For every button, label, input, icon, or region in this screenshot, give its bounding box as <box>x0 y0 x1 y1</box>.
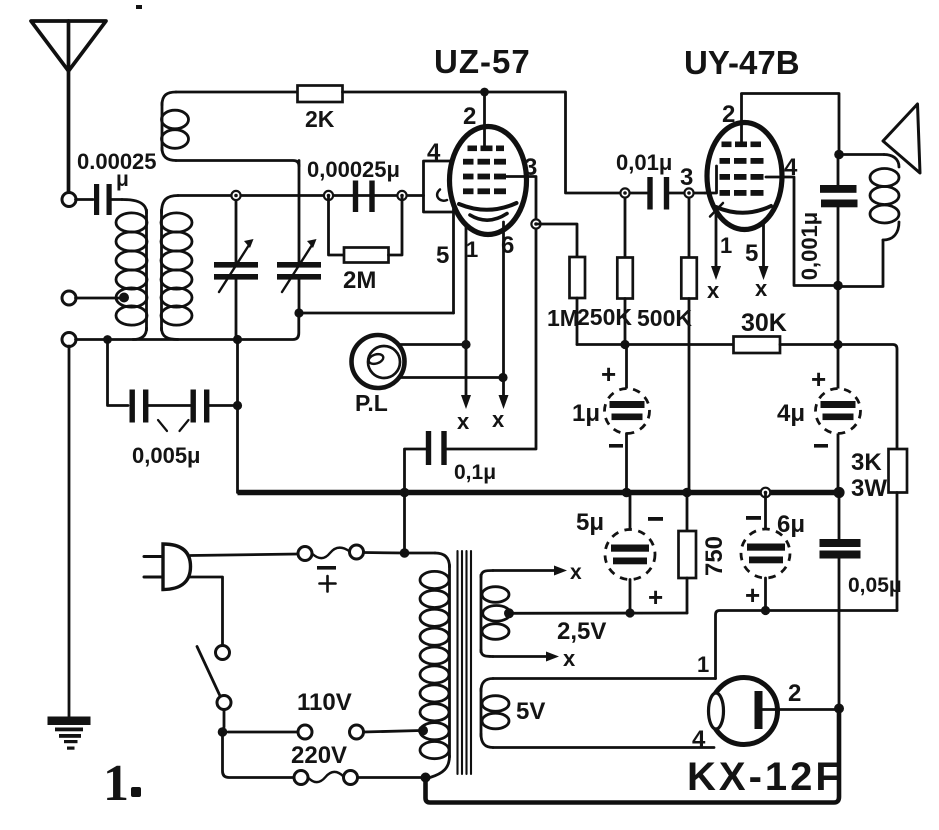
svg-text:3K: 3K <box>851 449 882 476</box>
svg-text:1μ: 1μ <box>572 400 600 427</box>
node bus 6u ring <box>761 488 771 498</box>
speaker coil <box>838 155 899 287</box>
node grid rail 2M right <box>397 191 406 200</box>
capacitor C1 0.00025u <box>76 149 157 215</box>
wire 220V branch <box>223 732 295 778</box>
capacitor C5 0.01u <box>616 150 705 210</box>
node bus 1u-5u <box>622 488 632 498</box>
svg-text:0,1μ: 0,1μ <box>454 461 496 484</box>
coil L3 tickler <box>162 92 189 161</box>
svg-text:UZ-57: UZ-57 <box>434 43 531 80</box>
capacitor C8 0.1u <box>405 431 497 493</box>
node 0.01u right ring <box>684 188 693 197</box>
wire bottom rail y339 <box>76 316 299 340</box>
wire tickler top to 2K <box>176 91 298 94</box>
node 0.005u junction <box>233 401 242 410</box>
wire lamp bottom lead <box>401 376 503 379</box>
resistor R4 250K <box>577 193 633 345</box>
wire grid rail y196 <box>178 194 424 197</box>
svg-text:2: 2 <box>722 101 735 128</box>
switch S1 <box>197 646 231 733</box>
svg-text:+: + <box>745 580 760 610</box>
wire V1 pin6 heater <box>492 222 509 432</box>
wire V2 pin2 top <box>742 94 840 155</box>
svg-text:3W: 3W <box>851 475 887 502</box>
node bus 0.1u riser <box>400 488 410 498</box>
wire 2.5V tap to 750 <box>509 612 687 615</box>
wire 30K to right riser <box>780 345 897 450</box>
ground terminal <box>62 333 76 347</box>
node lamp-pin1 <box>461 340 470 349</box>
svg-text:+: + <box>601 359 616 389</box>
wire V1 pin1 heater <box>457 226 471 434</box>
svg-text:μ: μ <box>116 168 129 191</box>
node grid rail varcap1 <box>231 191 240 200</box>
node plate-speaker bottom <box>833 281 843 291</box>
svg-text:+: + <box>811 364 826 394</box>
winding 2.5V <box>481 571 510 657</box>
wire V3 plate to node <box>761 708 840 711</box>
wire V2 pin5 heater arrow <box>755 222 769 301</box>
wire 2.5V bottom arrow <box>493 646 576 671</box>
svg-text:250K: 250K <box>577 304 632 330</box>
resistor R1 2K <box>298 86 343 103</box>
node UZ pin2 top <box>480 88 489 97</box>
svg-text:2K: 2K <box>305 106 335 132</box>
resistor R5 500K <box>637 193 697 493</box>
wire 2K to corner and down to 0.01u node <box>343 92 648 193</box>
svg-text:3: 3 <box>680 164 693 191</box>
node 5u bottom <box>625 608 634 617</box>
capacitor C11 5u electrolytic <box>576 493 663 614</box>
bus ground rail <box>238 490 840 496</box>
wire tickler bottom <box>176 161 299 167</box>
fuse F1 <box>298 545 364 592</box>
svg-text:4: 4 <box>427 139 441 166</box>
node plate junction ring <box>531 219 540 228</box>
svg-text:2,5V: 2,5V <box>557 618 606 645</box>
antenna terminal middle <box>62 291 76 305</box>
wire 110V to tap <box>364 731 422 733</box>
svg-text:x: x <box>707 278 720 303</box>
svg-text:4μ: 4μ <box>777 400 805 427</box>
svg-text:5: 5 <box>745 240 758 267</box>
tube V1 UZ-57 envelope <box>450 127 527 235</box>
svg-text:0,01μ: 0,01μ <box>616 150 672 175</box>
variable capacitor C3 <box>277 161 321 314</box>
resistor R3 1M <box>547 257 585 345</box>
wire fuse to transformer <box>364 551 436 554</box>
transformer core <box>458 551 472 774</box>
svg-text:1: 1 <box>697 652 709 677</box>
svg-text:x: x <box>570 561 582 584</box>
node 30K right junction <box>833 340 842 349</box>
wire lamp top lead <box>400 343 466 346</box>
svg-text:x: x <box>755 276 768 301</box>
tube V2 UY-47B envelope <box>707 123 782 230</box>
capacitor C9 1u electrolytic <box>572 345 650 493</box>
transformer primary coil <box>420 553 450 778</box>
wire 2.5V top arrow <box>493 561 582 584</box>
terminal 110V right <box>350 725 364 739</box>
node switch junction <box>218 727 228 737</box>
svg-text:0,001μ: 0,001μ <box>797 212 822 281</box>
antenna <box>31 21 106 193</box>
node varcap1 bottom <box>233 335 242 344</box>
node bus 500K-750 <box>682 488 692 498</box>
wire 3K3W bottom row <box>716 611 898 679</box>
variable capacitor C2 <box>214 196 258 340</box>
capacitor C10 4u electrolytic <box>777 364 861 448</box>
node lamp-pin6 <box>498 373 507 382</box>
node V3 plate <box>834 704 844 714</box>
svg-text:750: 750 <box>701 536 728 576</box>
svg-text:0,005μ: 0,005μ <box>132 443 201 468</box>
antenna terminal top <box>62 193 76 207</box>
wire bus to fuse line <box>403 493 406 554</box>
resistor R7 750 <box>679 493 729 614</box>
capacitor C4 0.00025u grid <box>307 157 400 212</box>
terminal 220V right <box>344 771 358 785</box>
fuse link 220V <box>308 772 344 782</box>
ground <box>48 717 91 750</box>
wire plug to fuse <box>191 554 299 556</box>
wire right riser x838 <box>837 155 840 493</box>
wire 220V to coil bottom <box>358 776 422 779</box>
svg-text:2: 2 <box>788 680 801 707</box>
wire plate to 1M <box>536 224 577 257</box>
terminal 110V left <box>298 725 312 739</box>
terminal 220V left <box>294 771 308 785</box>
wire 110V selector <box>228 731 298 734</box>
svg-text:x: x <box>563 646 576 671</box>
coil L2 secondary <box>161 196 192 340</box>
svg-text:0,00025μ: 0,00025μ <box>307 157 400 182</box>
UZ-57 grid cap box <box>424 161 453 212</box>
svg-text:UY-47B: UY-47B <box>684 44 800 81</box>
svg-text:5: 5 <box>436 242 449 269</box>
wire 30K row <box>577 343 734 346</box>
node 110V tap <box>418 726 428 736</box>
node bottom rail left <box>103 335 112 344</box>
resistor R6 3K 3W <box>851 449 907 611</box>
svg-text:x: x <box>457 409 470 434</box>
svg-text:P.L: P.L <box>355 390 388 416</box>
wire V1 pin5 cathode <box>452 209 455 313</box>
wire cathode return <box>299 312 454 315</box>
wire to speaker <box>839 153 884 156</box>
svg-text:500K: 500K <box>637 305 692 331</box>
resistor R2 2M <box>329 196 403 295</box>
svg-text:5V: 5V <box>516 698 545 725</box>
svg-text:1: 1 <box>720 233 732 258</box>
svg-text:KX-12F: KX-12F <box>687 755 843 799</box>
svg-text:1: 1 <box>466 237 478 262</box>
svg-text:5μ: 5μ <box>576 509 604 536</box>
wire ground lead <box>68 346 71 718</box>
node primary bottom <box>421 773 431 783</box>
node grid rail 2M left <box>324 191 333 200</box>
svg-text:110V: 110V <box>297 689 352 716</box>
wire V2 pin4 plate <box>766 177 838 286</box>
svg-text:2M: 2M <box>343 267 376 294</box>
svg-text:30K: 30K <box>741 309 787 337</box>
node 6u bottom <box>761 606 770 615</box>
winding 5V loop <box>481 679 716 748</box>
wire plug to switch <box>189 577 223 646</box>
node speaker top <box>834 150 844 160</box>
lamp PL <box>352 335 405 416</box>
node 0.01u left ring <box>620 188 629 197</box>
wire bottom return rail <box>426 709 840 803</box>
svg-text:4: 4 <box>692 726 706 753</box>
tube V2 internals <box>705 94 771 217</box>
label figure 1 <box>103 755 141 812</box>
node 250K bottom <box>620 340 629 349</box>
speck <box>136 5 142 9</box>
capacitor C6 0.001u <box>797 185 858 280</box>
coil L1 antenna primary <box>116 200 147 340</box>
svg-text:1: 1 <box>103 755 129 812</box>
AC plug <box>144 544 191 590</box>
node bus right end <box>833 487 844 498</box>
svg-text:1M: 1M <box>547 305 579 331</box>
capacitor C13 0.05u <box>820 493 902 709</box>
svg-text:0,05μ: 0,05μ <box>848 574 902 597</box>
node coil tap <box>119 293 129 303</box>
capacitor C12 6u electrolytic <box>741 493 805 611</box>
wire V1 plate out <box>447 177 536 450</box>
resistor R8 30K <box>734 309 787 353</box>
svg-text:+: + <box>648 582 663 612</box>
tube V1 internals <box>437 92 516 220</box>
capacitor C7 0.005u <box>108 340 238 469</box>
tube V3 KX-12F <box>709 678 778 745</box>
wire terminal to coil tap <box>76 297 123 300</box>
svg-text:220V: 220V <box>291 742 347 769</box>
node fuse line <box>400 548 410 558</box>
wire left drop to bus <box>236 340 239 493</box>
svg-text:2: 2 <box>463 103 476 130</box>
node varcap2 bottom junction <box>294 308 303 317</box>
svg-text:x: x <box>492 407 505 432</box>
wire V2 pin1 heater arrow <box>707 212 721 303</box>
svg-text:6μ: 6μ <box>777 511 805 538</box>
speaker horn <box>883 104 920 173</box>
node 2.5V tap <box>504 608 514 618</box>
